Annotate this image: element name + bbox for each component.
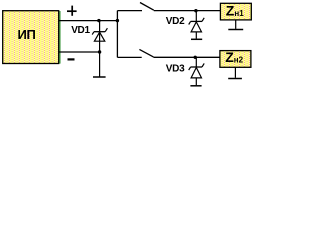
plus terminal label bbox=[67, 6, 77, 16]
wire + rail from ИП bbox=[59, 20, 118, 22]
wire to switch 1 bbox=[117, 10, 142, 12]
wire - rail from ИП bbox=[59, 51, 100, 53]
wire switch 2 to Zн2 bbox=[153, 56, 220, 58]
zener diode VD1 bbox=[92, 21, 107, 52]
load box Zн2 bbox=[220, 51, 251, 68]
ground below Zн1 bbox=[228, 20, 243, 30]
wire branch vertical bbox=[116, 11, 118, 58]
svg-text:ИП: ИП bbox=[17, 27, 35, 42]
svg-text:VD2: VD2 bbox=[166, 16, 185, 27]
power supply box ИП bbox=[3, 11, 59, 64]
green edge line right of ИП box bbox=[59, 11, 61, 64]
wire to switch 2 bbox=[117, 56, 141, 58]
zener diode VD2 bbox=[189, 11, 205, 39]
wire switch 1 to Zн1 bbox=[154, 10, 221, 12]
zener diode VD3 bbox=[189, 57, 205, 85]
ground below VD3 bbox=[190, 85, 201, 87]
switch 2 lever bbox=[139, 49, 153, 57]
switch 1 lever bbox=[140, 3, 154, 11]
junction node on + rail at VD1 bbox=[97, 19, 100, 22]
ground below VD2 bbox=[191, 38, 202, 40]
ground below Zн2 bbox=[228, 67, 242, 78]
svg-text:VD1: VD1 bbox=[71, 25, 90, 36]
load box Zн1 bbox=[220, 3, 251, 20]
junction node at VD2 bbox=[194, 9, 197, 12]
minus terminal label bbox=[68, 58, 75, 60]
svg-text:VD3: VD3 bbox=[166, 64, 185, 75]
junction node on - rail at VD1 bbox=[98, 50, 101, 53]
junction node at VD3 bbox=[194, 56, 197, 59]
junction node branch point bbox=[116, 19, 119, 22]
ground below VD1 bbox=[93, 52, 106, 77]
